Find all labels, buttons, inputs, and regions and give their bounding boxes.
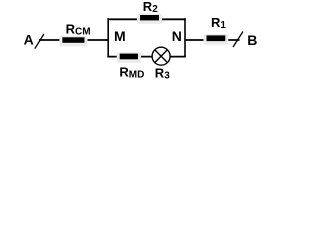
svg-text:N: N xyxy=(172,28,182,44)
wire R1 to B xyxy=(224,39,240,41)
terminal A slash xyxy=(35,34,44,49)
svg-text:A: A xyxy=(24,32,34,48)
terminal B slash xyxy=(233,32,243,48)
svg-text:B: B xyxy=(247,32,257,48)
wire A to RCM xyxy=(39,39,64,41)
top wire M to N through R2 xyxy=(107,18,185,20)
lamp R3 xyxy=(152,47,170,65)
left vertical wire at node M xyxy=(107,18,109,57)
resistor R2 xyxy=(137,13,162,24)
right vertical wire at node N xyxy=(184,18,186,57)
resistor RCM xyxy=(59,36,87,47)
resistor R1 xyxy=(204,34,229,45)
resistor RMD xyxy=(117,52,141,63)
bottom wire M to N through RMD and R3 xyxy=(107,56,185,58)
wire N to R1 xyxy=(185,39,208,41)
wire RCM to node M xyxy=(83,39,109,41)
svg-text:M: M xyxy=(114,28,126,44)
